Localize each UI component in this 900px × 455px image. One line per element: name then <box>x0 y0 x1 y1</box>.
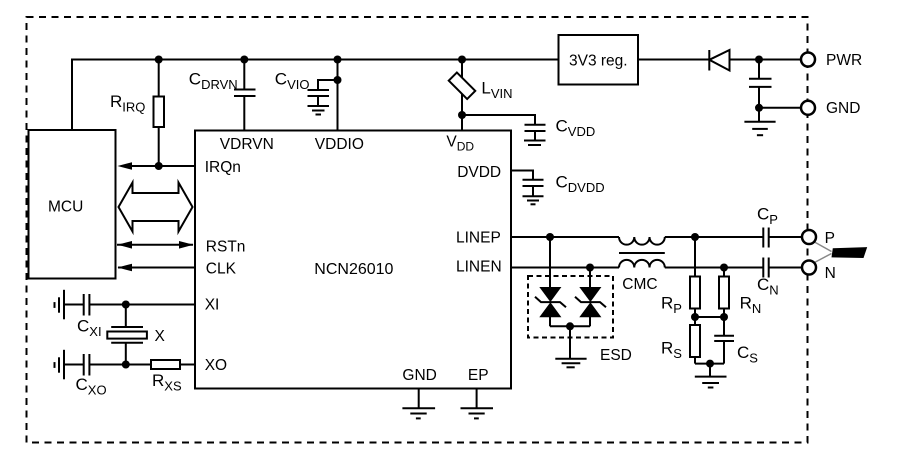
svg-text:LINEN: LINEN <box>456 259 502 276</box>
svg-text:DVDD: DVDD <box>457 164 501 181</box>
svg-text:XO: XO <box>205 357 227 374</box>
ground for GND pin <box>402 389 435 419</box>
ground for EP pin <box>461 389 494 419</box>
node: GND junction <box>755 104 763 112</box>
capacitor C_DRVN <box>189 60 256 131</box>
wire: R_P / R_N link <box>695 316 724 318</box>
svg-text:X: X <box>155 328 166 345</box>
node: R_N bottom <box>720 313 728 321</box>
ground for C_VDD <box>524 141 546 146</box>
terminal GND <box>801 100 860 117</box>
ground for C_VIO <box>308 106 330 115</box>
terminal PWR <box>801 52 862 69</box>
resistor R_XS <box>151 360 195 394</box>
node: R_S / C_S junction <box>706 360 714 368</box>
wire LINEN <box>511 267 619 269</box>
wire LINEP <box>511 236 619 238</box>
capacitor: PWR bulk cap <box>749 60 772 108</box>
svg-text:N: N <box>825 265 836 282</box>
svg-text:3V3 reg.: 3V3 reg. <box>569 53 628 70</box>
capacitor C_VIO <box>275 70 338 107</box>
node: R_IRQ / IRQn junction <box>155 162 163 170</box>
resistor R_S <box>661 317 700 364</box>
wire: 3.3V bus <box>72 60 559 131</box>
wire: regulator to diode <box>638 59 709 61</box>
node: L_VIN / C_VDD junction <box>458 111 466 119</box>
svg-text:CMC: CMC <box>622 276 657 293</box>
svg-text:PWR: PWR <box>826 52 862 69</box>
node: bus / L_VIN junction <box>458 56 466 64</box>
svg-text:P: P <box>825 230 835 247</box>
capacitor C_VDD <box>462 115 595 141</box>
node: PWR bus junction <box>755 56 763 64</box>
wire: VDD pin drop <box>461 115 463 131</box>
wire: diode to PWR <box>730 59 802 61</box>
CMC core line <box>619 252 665 254</box>
arrow: MCU parallel bus (big hollow double arrow) <box>119 183 193 232</box>
node: LINEN / R_N junction <box>720 264 728 272</box>
terminal N <box>802 261 836 283</box>
capacitor C_S <box>714 317 758 366</box>
ground for C_XO (left rail) <box>55 350 65 380</box>
svg-text:XI: XI <box>205 297 220 314</box>
capacitor C_DVDD <box>511 171 605 197</box>
svg-text:GND: GND <box>402 367 436 384</box>
svg-text:VDRVN: VDRVN <box>220 136 274 153</box>
svg-text:NCN26010: NCN26010 <box>314 261 393 278</box>
terminal P <box>802 230 835 247</box>
node: LINEP / R_P junction <box>691 233 699 241</box>
svg-text:VDDIO: VDDIO <box>315 136 364 153</box>
wire: GND terminal link <box>759 107 801 109</box>
node: R_P bottom <box>691 313 699 321</box>
svg-text:EP: EP <box>468 367 489 384</box>
capacitor C_P <box>757 205 802 248</box>
node: LINEP / ESD junction <box>546 233 554 241</box>
svg-text:IRQn: IRQn <box>205 159 241 176</box>
arrow: CLK into MCU <box>118 264 196 272</box>
wire LINEN after CMC <box>665 267 764 269</box>
node: XO junction <box>122 361 130 369</box>
op NCN26010 U1 <box>195 131 511 389</box>
node: C_VIO stub junction <box>334 76 342 84</box>
node: bus / R_IRQ junction <box>155 56 163 64</box>
node: LINEN / ESD junction <box>586 264 594 272</box>
twisted pair leads <box>815 242 832 263</box>
resistor R_IRQ <box>110 60 164 167</box>
MCU <box>29 130 116 279</box>
node: bus / VDDIO junction <box>334 56 342 64</box>
diode D1 <box>709 50 729 71</box>
inductor L_VIN (ferrite bead) <box>449 60 513 116</box>
ground for R_S / C_S <box>695 364 727 388</box>
svg-text:LINEP: LINEP <box>456 230 501 247</box>
cable wedge <box>832 247 868 258</box>
ground for C_XI (left rail) <box>55 290 65 320</box>
node: XI junction <box>122 301 130 309</box>
ground for ESD <box>555 326 586 367</box>
svg-text:CLK: CLK <box>206 261 237 278</box>
node: ESD common junction <box>566 322 574 330</box>
ESD dashed box <box>528 276 613 338</box>
wire: R_S / C_S link <box>695 363 724 365</box>
inductor: CMC top winding <box>619 237 665 245</box>
ground for C_DVDD <box>523 196 544 204</box>
node: bus / C_DRVN junction <box>240 56 248 64</box>
resistor R_P <box>661 237 700 317</box>
arrow: IRQn into MCU <box>118 162 196 170</box>
TVS diode ESD2 <box>575 268 606 327</box>
svg-text:ESD: ESD <box>600 347 632 364</box>
inductor: CMC bottom winding <box>619 260 665 268</box>
ground for bulk cap <box>744 108 775 135</box>
arrow: RSTn bidirectional <box>117 241 194 249</box>
wire LINEP after CMC <box>665 236 764 238</box>
capacitor C_N <box>757 258 802 298</box>
wire: VDDIO drop <box>337 60 339 131</box>
regulator 3V3 reg. <box>559 35 639 85</box>
svg-text:GND: GND <box>826 100 860 117</box>
capacitor C_XO <box>64 354 151 398</box>
crystal X <box>107 305 165 365</box>
capacitor C_XI <box>64 294 195 339</box>
resistor R_N <box>719 268 761 318</box>
svg-text:MCU: MCU <box>48 199 83 216</box>
TVS diode ESD1 <box>535 237 566 326</box>
svg-text:RSTn: RSTn <box>206 239 246 256</box>
wire: ESD common <box>550 325 590 327</box>
